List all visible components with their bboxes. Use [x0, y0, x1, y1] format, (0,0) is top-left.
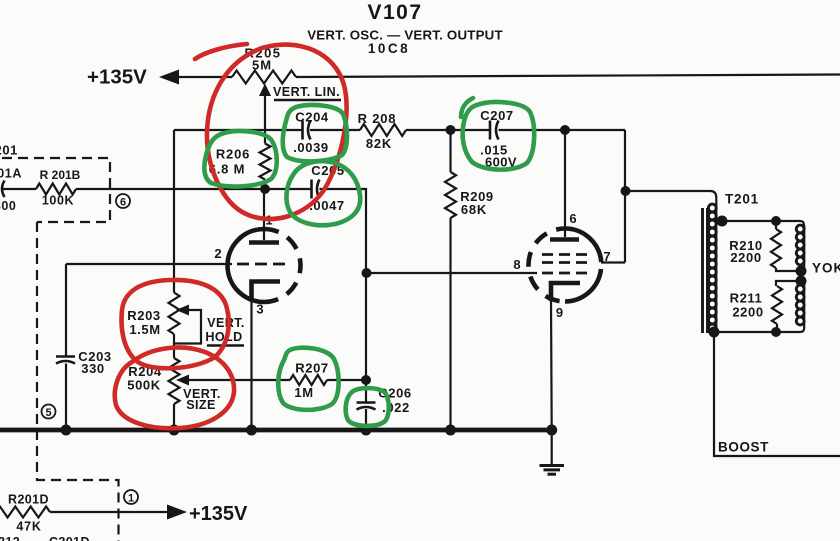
- label VERT. SIZE: [183, 387, 221, 412]
- node junction R206/C205/plate: [260, 184, 270, 194]
- wire C205 to corner x=366: [320, 189, 367, 273]
- wire +135V rail top: [177, 76, 232, 78]
- annotation green circle around C206: [346, 388, 389, 426]
- wire R201B to C205 node: [76, 188, 265, 190]
- grid 1 of V107B (dashed): [542, 253, 587, 256]
- plate of V107A: [249, 240, 279, 245]
- +135V supply label (top): [87, 66, 147, 89]
- node junction rail/R209: [446, 125, 456, 135]
- node junction bus/cathode 3: [246, 425, 257, 436]
- terminal 5 circle: [42, 405, 56, 420]
- value 3300 (clipped): [0, 199, 17, 213]
- value .015: [480, 143, 508, 158]
- label R210: [729, 238, 762, 253]
- node junction R210 top: [771, 216, 781, 226]
- resistor R204: [169, 358, 180, 404]
- subtitle VERT. OSC. - VERT. OUTPUT: [307, 28, 503, 43]
- annotation green circle around C204: [283, 105, 347, 161]
- wire pin8 line: [367, 272, 538, 274]
- svg-text:82K: 82K: [366, 136, 392, 151]
- svg-text:T201: T201: [725, 192, 759, 207]
- svg-text:SIZE: SIZE: [186, 398, 216, 412]
- wire C205 node to capacitor: [265, 188, 312, 190]
- node junction bus/C203: [61, 425, 72, 436]
- node junction T201 feed: [621, 186, 631, 196]
- value 2200: [730, 250, 761, 265]
- value 330: [81, 361, 105, 376]
- value 6.8M: [209, 162, 246, 177]
- label R201D: [8, 493, 49, 507]
- wire secondary top node: [716, 221, 804, 225]
- svg-text:R 208: R 208: [358, 111, 397, 126]
- svg-text:6: 6: [569, 211, 576, 226]
- value 2200: [732, 305, 763, 320]
- annotation green circle around R206: [204, 131, 276, 186]
- pin label 2: [214, 246, 221, 261]
- wire R205 wiper stem down to R206: [264, 93, 266, 144]
- label R211: [730, 291, 763, 306]
- svg-text:6: 6: [120, 197, 126, 209]
- value 5M: [252, 58, 272, 73]
- annotation green circle around C205: [286, 161, 360, 225]
- wire left column x=66: [65, 264, 67, 430]
- annotation green circle around C207: [461, 98, 534, 170]
- wire secondary bottom node: [714, 331, 800, 333]
- svg-text:2200: 2200: [730, 250, 761, 265]
- wiper arrow of R205: [259, 84, 271, 97]
- pentode V107B envelope solid right arc lower: [565, 269, 601, 302]
- wire ground stem: [551, 430, 553, 465]
- value 1.5M: [129, 322, 160, 337]
- wire R204 wiper to R207: [187, 379, 290, 381]
- svg-text:.0039: .0039: [293, 140, 329, 155]
- svg-text:3: 3: [256, 302, 263, 317]
- wire yoke mid link: [800, 271, 802, 281]
- node junction winding tap top: [717, 216, 728, 227]
- node junction yoke mid lower: [796, 276, 807, 287]
- transformer T201 core: [703, 208, 708, 333]
- pin label 8: [513, 257, 520, 272]
- svg-text:10C8: 10C8: [368, 41, 410, 56]
- pin label 1: [265, 213, 272, 228]
- wire R201D to arrow: [50, 511, 170, 513]
- wire R203 wiper bracket: [174, 310, 201, 344]
- capacitor C207: [490, 121, 499, 140]
- node junction bus/C206: [361, 425, 372, 436]
- svg-text:500K: 500K: [127, 378, 160, 393]
- svg-text:R206: R206: [216, 147, 250, 162]
- pin label 3: [256, 302, 263, 317]
- wire from R205 to right edge: [296, 75, 840, 78]
- svg-text:5M: 5M: [252, 58, 272, 73]
- arrow to +135V (top): [159, 70, 179, 85]
- resistor R207: [290, 375, 327, 385]
- value 68K: [461, 202, 487, 217]
- cathode of V107A: [252, 282, 281, 301]
- wire plate feed column x=625: [624, 130, 626, 263]
- svg-text:+135V: +135V: [189, 503, 248, 525]
- ground bus (thick): [0, 428, 552, 433]
- pin label 9: [556, 305, 563, 320]
- svg-text:+135V: +135V: [87, 66, 147, 89]
- label YOKE (clipped): [812, 261, 840, 276]
- value 47K: [16, 520, 41, 534]
- annotation red circle around R203: [122, 280, 229, 368]
- wire divider chain x=174: [173, 130, 175, 293]
- label R208: [358, 111, 397, 126]
- svg-text:1: 1: [128, 493, 134, 505]
- svg-text:47K: 47K: [16, 520, 41, 534]
- node junction bus/cathode 9: [546, 425, 557, 436]
- annotation red circle around R205: [195, 44, 347, 219]
- resistor R203: [169, 293, 180, 335]
- svg-text:C201: C201: [0, 143, 18, 158]
- svg-text:212: 212: [0, 535, 20, 541]
- label R212 fragment (clipped bottom): [0, 535, 20, 541]
- svg-text:C201A: C201A: [0, 167, 22, 181]
- annotation red circle around R204: [115, 347, 234, 428]
- capacitor C206: [357, 403, 376, 410]
- node junction pin8 branch: [362, 268, 372, 278]
- wire grid line to tube 1 pin 2: [66, 263, 232, 265]
- svg-text:R201D: R201D: [8, 493, 49, 507]
- tube type label 10C8: [368, 41, 410, 56]
- cathode of V107B: [551, 283, 580, 301]
- dashed wire left branch x=37: [37, 222, 119, 541]
- label C204: [295, 110, 329, 125]
- label R206: [216, 147, 250, 162]
- label R203: [127, 308, 160, 323]
- node junction bus/R209: [445, 425, 456, 436]
- wire R204 to ground bus: [173, 404, 175, 430]
- node junction R211 bottom: [771, 327, 781, 337]
- dashed box around R201B: [2, 158, 110, 222]
- resistor R201D (clipped at left): [0, 507, 50, 518]
- value 1M: [294, 385, 313, 400]
- value .022: [382, 400, 410, 415]
- resistor R209: [445, 172, 456, 218]
- wire cathode pin 9 down to bus: [550, 299, 553, 430]
- resistor R205: [232, 71, 296, 84]
- resistor R210: [771, 221, 801, 271]
- triode V107A envelope dashed right arc: [264, 229, 301, 302]
- label R 201B: [40, 168, 81, 182]
- value 500K: [127, 378, 160, 393]
- label T201: [725, 192, 759, 207]
- wire R207 to C206 node: [327, 379, 366, 381]
- svg-text:2200: 2200: [732, 305, 763, 320]
- label C205: [311, 163, 344, 178]
- wire cathode pin 3 down to bus: [250, 298, 252, 430]
- transformer T201 winding: [708, 204, 716, 332]
- label VERT. LIN.: [273, 85, 340, 99]
- grid of V107A (dashed): [237, 263, 285, 266]
- svg-text:C204: C204: [295, 110, 329, 125]
- svg-text:R207: R207: [295, 361, 328, 376]
- svg-text:BOOST: BOOST: [718, 440, 769, 455]
- svg-text:9: 9: [556, 305, 563, 320]
- wire main oscillator rail y=130: [174, 129, 625, 131]
- plate of V107B: [550, 237, 579, 242]
- svg-text:1.5M: 1.5M: [129, 322, 160, 337]
- node junction bus/R204: [169, 425, 180, 436]
- svg-text:R203: R203: [127, 308, 160, 323]
- node junction R207/C206: [361, 375, 371, 385]
- svg-text:8: 8: [513, 257, 520, 272]
- ground: [540, 466, 565, 475]
- resistor R206: [260, 144, 271, 180]
- node junction yoke mid upper: [796, 266, 807, 277]
- wire R203 to R204: [173, 334, 175, 358]
- value 100K: [42, 194, 74, 208]
- wiper arrow R203: [176, 305, 189, 316]
- yoke winding upper half: [796, 225, 804, 271]
- svg-text:C201D: C201D: [49, 535, 90, 541]
- label C201 (clipped): [0, 143, 18, 158]
- svg-text:C207: C207: [480, 108, 513, 123]
- label R209: [460, 189, 493, 204]
- resistor R201B: [36, 184, 76, 195]
- pin label 7: [603, 249, 610, 264]
- wiper arrow R204: [176, 375, 189, 386]
- value .0047: [309, 198, 345, 213]
- svg-text:1M: 1M: [294, 385, 313, 400]
- +135V supply label (bottom): [189, 503, 248, 525]
- value 600V: [485, 155, 517, 170]
- label R205: [244, 46, 281, 61]
- resistor R208: [360, 124, 406, 136]
- svg-text:100K: 100K: [42, 194, 74, 208]
- pin label 6: [569, 211, 576, 226]
- label R207: [295, 361, 328, 376]
- label C201A (clipped): [0, 167, 22, 181]
- grid 3 of V107B (dashed): [542, 272, 587, 275]
- capacitor C204: [303, 121, 311, 140]
- svg-text:5: 5: [45, 407, 51, 419]
- svg-text:R211: R211: [730, 291, 763, 306]
- wire x=366 down through C206: [365, 273, 367, 430]
- value 82K: [366, 136, 392, 151]
- label C203: [78, 349, 111, 364]
- yoke winding lower half: [796, 281, 804, 332]
- capacitor C203: [56, 357, 75, 364]
- terminal 6 circle: [116, 194, 130, 209]
- svg-text:R 201B: R 201B: [40, 168, 81, 182]
- svg-text:YOKE: YOKE: [812, 261, 840, 276]
- wire boost line: [714, 332, 840, 456]
- svg-text:2: 2: [214, 246, 221, 261]
- svg-text:V107: V107: [367, 1, 422, 24]
- wire R211 top link: [776, 281, 801, 286]
- svg-text:3300: 3300: [0, 199, 17, 213]
- label R204: [128, 364, 162, 379]
- label C206: [378, 386, 411, 401]
- value .0039: [293, 140, 329, 155]
- wire R206 bottom lead: [264, 180, 266, 190]
- resistor R211: [772, 286, 782, 332]
- svg-text:VERT. LIN.: VERT. LIN.: [273, 85, 340, 99]
- wire plate lead pin 1: [263, 189, 265, 240]
- wire plate lead pin 6: [564, 130, 566, 237]
- svg-text:68K: 68K: [461, 202, 487, 217]
- label VERT. HOLD: [205, 316, 244, 344]
- underline HOLD: [207, 344, 244, 346]
- node junction winding bottom: [709, 327, 720, 338]
- wire C201A to R201B: [3, 188, 37, 190]
- pentode V107B envelope dashed left arc: [529, 229, 566, 302]
- node junction rail/pin6: [560, 125, 570, 135]
- capacitor C201A right plate (clipped at left edge): [2, 181, 5, 198]
- arrow to +135V (bottom): [167, 505, 187, 520]
- terminal 1 circle: [124, 490, 138, 505]
- triode V107A envelope solid left arc: [228, 229, 265, 302]
- svg-text:330: 330: [81, 361, 105, 376]
- capacitor C205: [312, 180, 320, 199]
- svg-text:VERT.: VERT.: [207, 316, 245, 330]
- label C207: [480, 108, 513, 123]
- title V107: [367, 1, 422, 24]
- underline VERT. LIN.: [274, 99, 341, 101]
- wire pin 7 lead: [601, 261, 625, 263]
- wire R209 column: [449, 130, 451, 430]
- wire to T201 primary top: [626, 191, 717, 206]
- grid 2 of V107B (dashed): [542, 261, 587, 264]
- annotation green circle around R207: [278, 348, 338, 410]
- label BOOST: [718, 440, 769, 455]
- pentode V107B envelope solid right arc upper: [565, 229, 601, 263]
- label C201D fragment (clipped bottom): [49, 535, 90, 541]
